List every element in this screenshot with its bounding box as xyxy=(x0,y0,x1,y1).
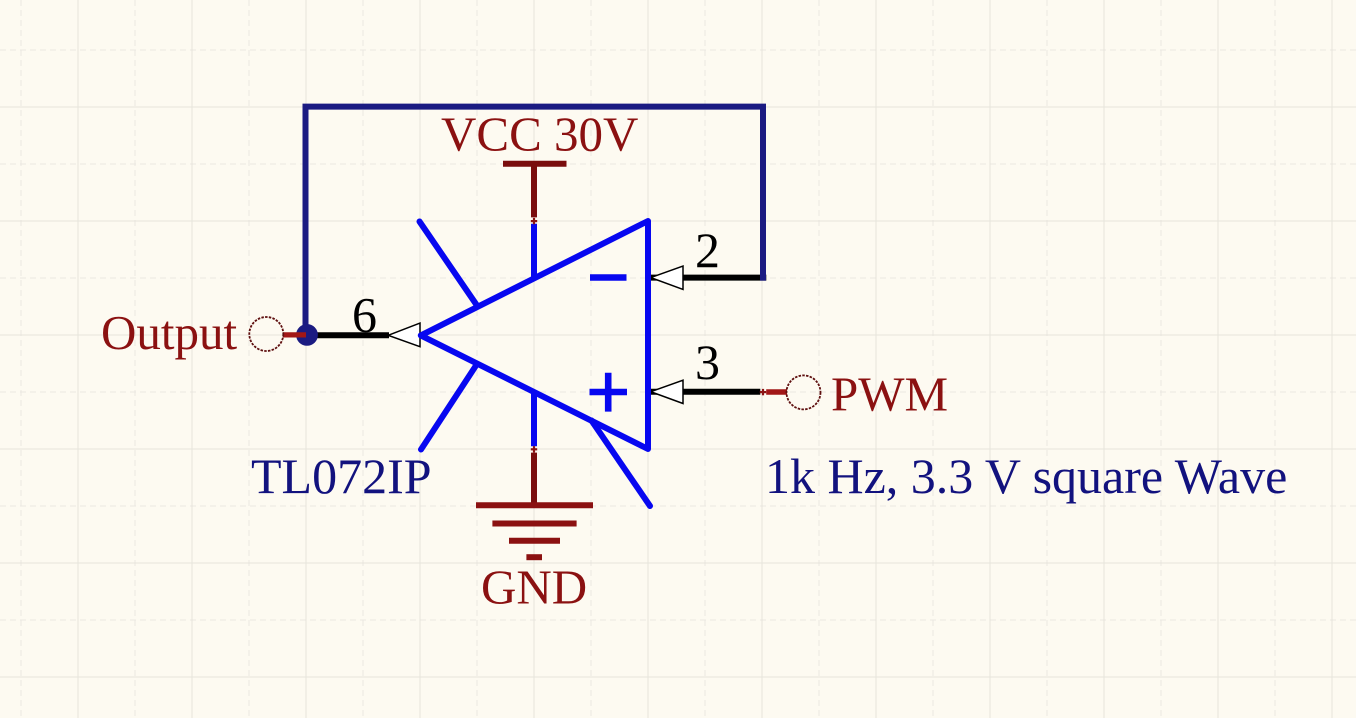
svg-text:6: 6 xyxy=(352,287,377,343)
wire pin2 black segment xyxy=(650,275,766,281)
svg-text:VCC 30V: VCC 30V xyxy=(441,107,638,162)
wire pin3 black segment xyxy=(650,389,760,395)
op-amp U1 triangle body xyxy=(421,221,648,449)
op-amp whisker upper-left xyxy=(420,222,478,306)
svg-text:3: 3 xyxy=(695,334,720,390)
pin V- vertical lead xyxy=(531,392,537,446)
svg-text:TL072IP: TL072IP xyxy=(251,448,432,504)
op-amp plus input marker xyxy=(590,373,628,412)
port PWM dashed circle xyxy=(787,375,821,409)
op-amp whisker lower-right xyxy=(592,421,651,507)
svg-text:2: 2 xyxy=(695,222,720,278)
ground GND bar 3 xyxy=(509,538,560,544)
op-amp whisker lower-left xyxy=(421,364,477,450)
ground GND stem xyxy=(531,453,537,506)
pin V+ vertical lead xyxy=(531,224,537,279)
pin V+ end cross mark xyxy=(531,218,537,224)
wire feedback net (output node to pin 2) xyxy=(306,107,764,335)
wire PWM port stub (maroon) xyxy=(766,389,787,394)
svg-text:Output: Output xyxy=(101,305,238,360)
ground GND bar 4 xyxy=(526,554,542,560)
pin 3 end cross mark xyxy=(760,389,766,395)
power port VCC bar xyxy=(503,161,567,167)
junction dot at output node xyxy=(296,324,318,346)
op-amp minus input marker xyxy=(590,274,627,281)
pin 3 arrowhead xyxy=(651,380,683,403)
ground GND bar 1 xyxy=(476,502,593,508)
power port VCC stem xyxy=(531,165,537,217)
ground GND bar 2 xyxy=(492,521,576,527)
svg-text:PWM: PWM xyxy=(831,367,948,422)
pin 2 arrowhead xyxy=(651,266,683,289)
svg-text:1k Hz, 3.3 V square Wave: 1k Hz, 3.3 V square Wave xyxy=(765,448,1287,504)
wire output port stub (maroon) xyxy=(283,332,306,337)
pin V- end cross mark xyxy=(531,446,537,452)
pin 6 arrowhead xyxy=(388,323,420,347)
wire pin6 black segment xyxy=(306,332,389,338)
svg-text:GND: GND xyxy=(481,560,587,615)
port Output dashed circle xyxy=(249,317,283,351)
